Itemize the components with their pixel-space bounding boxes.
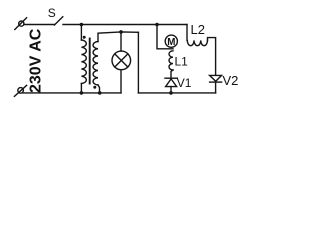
diode V2 bbox=[210, 75, 222, 81]
wire V2 to rail bbox=[215, 82, 217, 93]
lamp E1 bbox=[112, 51, 131, 70]
svg-text:V2: V2 bbox=[223, 73, 239, 88]
terminal X2 (bottom left) bbox=[18, 88, 24, 94]
svg-text:S: S bbox=[48, 6, 56, 20]
wire top rail corner down to L2 bbox=[186, 25, 188, 41]
wire secondary top lead bbox=[98, 32, 138, 42]
wire V1 to rail bbox=[170, 87, 172, 93]
polarity dot primary bbox=[83, 36, 86, 39]
junction dot bottom rail / secondary bbox=[98, 91, 102, 95]
wire primary bottom lead bbox=[80, 84, 82, 93]
wire L1 to V1 bbox=[171, 70, 173, 78]
wire top rail right of switch bbox=[63, 24, 187, 26]
junction dot top rail / motor branch bbox=[155, 23, 159, 27]
wire L2 to V2 bbox=[208, 38, 216, 76]
svg-text:L1: L1 bbox=[175, 55, 189, 69]
transformer core bbox=[89, 39, 91, 84]
wire lamp top lead bbox=[120, 32, 122, 51]
svg-text:L2: L2 bbox=[191, 22, 205, 37]
inductor L1 bbox=[169, 51, 173, 70]
svg-text:230V AC: 230V AC bbox=[28, 28, 45, 93]
wire right link vertical bbox=[137, 32, 139, 93]
junction dot top rail / primary bbox=[80, 23, 84, 27]
svg-text:M: M bbox=[167, 37, 175, 48]
motor U1 bbox=[165, 35, 177, 47]
wire lamp bottom lead bbox=[120, 70, 122, 93]
wire bottom rail left bbox=[23, 92, 121, 94]
junction dot bottom rail / V1 bbox=[169, 91, 173, 95]
wire secondary bottom lead bbox=[98, 85, 100, 93]
junction dot bottom rail / primary bbox=[80, 91, 84, 95]
polarity dot secondary bbox=[93, 86, 96, 89]
svg-text:V1: V1 bbox=[177, 76, 192, 90]
inductor L2 bbox=[187, 40, 207, 45]
transformer T1 secondary winding bbox=[93, 42, 98, 86]
junction dot secondary line / lamp bbox=[119, 30, 123, 34]
switch S arm bbox=[54, 17, 62, 25]
wire primary top lead bbox=[80, 25, 82, 41]
wire top rail left bbox=[24, 24, 55, 26]
transformer T1 primary winding bbox=[81, 40, 86, 84]
wire bottom rail right bbox=[138, 92, 215, 94]
terminal X1 (top left) bbox=[19, 21, 24, 26]
diode V1 bbox=[165, 77, 177, 79]
wire motor branch down bbox=[157, 25, 173, 49]
